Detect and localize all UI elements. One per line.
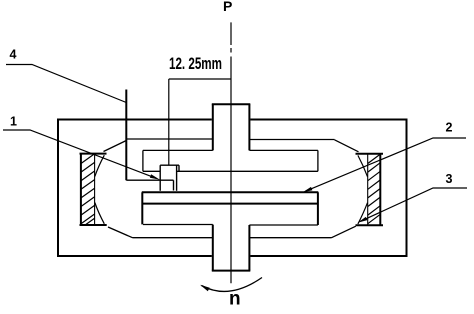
- gap line right: [177, 170, 318, 172]
- pocket top-left line: [127, 138, 213, 140]
- svg-text:P: P: [223, 0, 232, 14]
- svg-text:3: 3: [446, 172, 453, 186]
- lower step line right: [249, 224, 318, 226]
- stator wall left: [142, 150, 144, 171]
- gap line left: [143, 170, 160, 172]
- pocket top-right line: [249, 139, 334, 141]
- flange (disc): [142, 192, 318, 225]
- left bearing hatching: [81, 154, 95, 225]
- lower shaft: [212, 225, 251, 271]
- leader for label 4: [6, 65, 126, 103]
- centerline (vertical axis): [230, 22, 232, 283]
- stator step left: [143, 149, 213, 151]
- left bearing (component with hatching): [80, 154, 107, 225]
- upper shaft: [212, 104, 251, 150]
- svg-text:4: 4: [10, 48, 17, 62]
- pocket bottom-left chamfer: [108, 227, 133, 238]
- right bearing (component with hatching): [356, 154, 384, 225]
- right bearing hatching: [368, 154, 381, 224]
- leader for label 2: [306, 138, 467, 191]
- probe rod (component 4): [125, 90, 127, 181]
- sensor block (component 1): [160, 165, 179, 191]
- stator wall right: [317, 150, 319, 171]
- rotation arrow arc: [202, 278, 263, 292]
- leader for label 3: [361, 188, 468, 221]
- pocket top-right chamfer: [335, 140, 359, 152]
- stator step right: [249, 149, 318, 151]
- pocket bottom-right line: [249, 237, 331, 239]
- pocket top-left chamfer: [104, 141, 127, 152]
- rotation arrowhead: [200, 285, 210, 292]
- svg-text:n: n: [229, 289, 241, 310]
- lower step line left: [143, 224, 213, 226]
- svg-text:2: 2: [446, 121, 453, 135]
- svg-text:1: 1: [10, 115, 17, 129]
- housing outer rectangle (broken at shafts): [58, 119, 407, 258]
- svg-text:12. 25mm: 12. 25mm: [169, 55, 222, 74]
- leader for label 1: [3, 130, 157, 178]
- dimension extension line: [168, 79, 170, 165]
- pocket bottom-left line: [133, 237, 213, 239]
- dimension line: [169, 78, 231, 80]
- pocket bottom-right chamfer: [332, 226, 356, 238]
